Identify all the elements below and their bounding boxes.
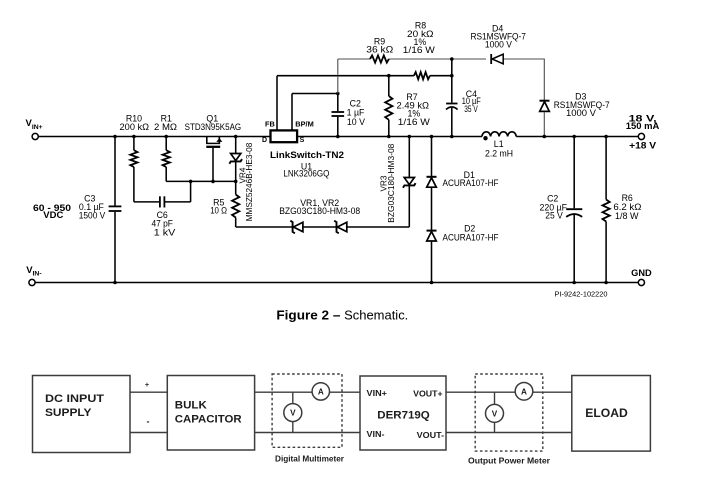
wire BP/M horizontal xyxy=(292,93,338,95)
wire bulk to der bottom xyxy=(255,432,360,434)
svg-text:VIN+: VIN+ xyxy=(26,118,43,131)
block ELOAD xyxy=(572,376,651,452)
svg-text:VIN+: VIN+ xyxy=(367,388,388,398)
IC U1 LinkSwitch-TN2 xyxy=(271,130,298,142)
svg-text:1000 V: 1000 V xyxy=(566,108,596,118)
svg-text:ELOAD: ELOAD xyxy=(585,408,628,420)
wire S-node rail segment xyxy=(297,136,482,138)
wire FB/R8 node vertical xyxy=(451,59,453,103)
diode D3 xyxy=(540,100,550,102)
svg-text:SUPPLY: SUPPLY xyxy=(45,407,92,419)
diode D2 xyxy=(427,230,437,232)
meter V (OPM) xyxy=(486,404,504,422)
block DC INPUT SUPPLY xyxy=(33,376,131,453)
svg-text:FB: FB xyxy=(265,120,275,129)
zener diode VR2 xyxy=(334,221,339,234)
svg-text:VIN-: VIN- xyxy=(367,429,385,439)
wire C6 to gate junction xyxy=(190,181,192,202)
svg-text:DER719Q: DER719Q xyxy=(377,409,430,421)
capacitor C6 xyxy=(134,201,159,203)
svg-text:ACURA107-HF: ACURA107-HF xyxy=(443,178,500,188)
svg-text:BZG03C180-HM3-08: BZG03C180-HM3-08 xyxy=(387,143,396,222)
inductor L1 xyxy=(482,132,516,137)
svg-text:BZG03C180-HM3-08: BZG03C180-HM3-08 xyxy=(279,206,360,216)
svg-text:Digital Multimeter: Digital Multimeter xyxy=(275,455,345,464)
svg-text:VOUT+: VOUT+ xyxy=(413,389,443,399)
node VIN- terminal xyxy=(29,279,35,285)
wire der to eload top xyxy=(446,391,572,393)
wire riser to BP junction (gray) xyxy=(337,59,339,75)
svg-text:MMSZ5246B-HE3-08: MMSZ5246B-HE3-08 xyxy=(245,142,254,221)
svg-text:200 kΩ: 200 kΩ xyxy=(120,122,150,132)
svg-text:1000 V: 1000 V xyxy=(485,40,512,50)
svg-text:BULK: BULK xyxy=(175,399,207,411)
svg-text:1/16 W: 1/16 W xyxy=(403,45,436,55)
wire output rail segment xyxy=(516,136,638,138)
svg-text:10 V: 10 V xyxy=(347,117,365,127)
wire dc+ xyxy=(130,391,167,393)
wire D3 to output rail (gray) xyxy=(543,112,545,136)
wire gate junction line xyxy=(166,180,236,182)
svg-text:V: V xyxy=(290,409,296,418)
svg-text:35 V: 35 V xyxy=(464,104,478,114)
wire FB horizontal line xyxy=(277,75,414,77)
svg-text:LNK3206GQ: LNK3206GQ xyxy=(283,168,329,178)
capacitor C3 xyxy=(114,137,116,206)
svg-text:D: D xyxy=(262,137,267,144)
svg-text:1/16 W: 1/16 W xyxy=(398,117,431,127)
resistor R9 xyxy=(370,55,389,62)
svg-text:DC INPUT: DC INPUT xyxy=(45,393,104,405)
svg-text:V: V xyxy=(492,410,498,419)
node GND terminal xyxy=(638,279,644,285)
capacitor C4 xyxy=(446,103,457,105)
wire R9 line (gray) xyxy=(338,58,370,60)
svg-text:1/8 W: 1/8 W xyxy=(615,211,639,221)
svg-text:LinkSwitch-TN2: LinkSwitch-TN2 xyxy=(270,150,344,160)
resistor R1 xyxy=(165,137,167,151)
svg-text:-: - xyxy=(147,417,150,427)
wire bottom rail xyxy=(35,282,638,284)
wire Q1 gate lead xyxy=(212,148,214,182)
zener diode VR1 xyxy=(290,221,295,234)
capacitor C2 (220uF output) xyxy=(573,137,575,209)
wire VR1-VR2 line xyxy=(236,226,293,228)
svg-text:+18 V: +18 V xyxy=(629,140,657,150)
diode D1 xyxy=(431,137,433,177)
resistor R6 xyxy=(605,137,607,200)
zener diode VR3 xyxy=(408,186,410,227)
svg-text:A: A xyxy=(521,387,527,396)
svg-text:VOUT-: VOUT- xyxy=(417,430,445,440)
svg-text:150 mA: 150 mA xyxy=(626,121,660,131)
wire bulk to der top xyxy=(255,391,360,393)
meter V (DM) xyxy=(284,404,302,422)
transistor Q1 xyxy=(206,137,208,145)
L1 phasing dot xyxy=(483,136,487,140)
dashed box Output Power Meter xyxy=(475,374,543,451)
wire voltmeter stem DM xyxy=(292,392,294,432)
svg-text:S: S xyxy=(300,137,305,144)
meter A (DM) xyxy=(312,383,329,400)
svg-text:BP/M: BP/M xyxy=(295,120,313,129)
svg-text:1 kV: 1 kV xyxy=(154,227,176,237)
svg-text:VDC: VDC xyxy=(43,210,64,220)
diode D4 xyxy=(490,54,492,64)
svg-text:+: + xyxy=(145,380,149,389)
svg-text:Figure 2 –Schematic.: Figure 2 –Schematic. xyxy=(276,308,408,323)
resistor R10 xyxy=(133,137,135,151)
resistor R5 xyxy=(232,195,239,218)
dashed box Digital Multimeter xyxy=(272,374,342,447)
svg-text:1500 V: 1500 V xyxy=(79,210,106,220)
svg-text:STD3N95K5AG: STD3N95K5AG xyxy=(185,122,242,132)
svg-text:2 MΩ: 2 MΩ xyxy=(154,122,177,132)
resistor R8 xyxy=(414,72,430,79)
wire FB pin riser xyxy=(276,76,278,131)
wire BP/M pin riser xyxy=(291,94,293,131)
svg-text:GND: GND xyxy=(631,268,652,278)
node 18V output terminal xyxy=(638,133,644,139)
svg-text:Output Power Meter: Output Power Meter xyxy=(468,456,551,465)
svg-text:CAPACITOR: CAPACITOR xyxy=(175,413,242,425)
svg-text:1 µF: 1 µF xyxy=(347,107,365,117)
svg-text:10 Ω: 10 Ω xyxy=(210,206,227,216)
svg-text:PI-9242-102220: PI-9242-102220 xyxy=(555,289,608,298)
capacitor C2 (1uF BP) xyxy=(337,94,339,112)
wire top rail input segment xyxy=(38,136,270,138)
svg-text:36 kΩ: 36 kΩ xyxy=(366,45,393,55)
wire der to eload bottom xyxy=(446,432,572,434)
svg-text:ACURA107-HF: ACURA107-HF xyxy=(443,232,500,242)
wire voltmeter stem OPM xyxy=(494,392,496,432)
node VIN+ terminal xyxy=(32,133,38,139)
meter A (OPM) xyxy=(515,383,533,401)
svg-text:A: A xyxy=(318,388,324,397)
block BULK CAPACITOR xyxy=(167,376,254,451)
svg-text:25 V: 25 V xyxy=(545,210,563,220)
zener diode VR4 xyxy=(235,137,237,154)
svg-text:2.2 mH: 2.2 mH xyxy=(485,149,513,159)
block DER719Q xyxy=(360,376,446,450)
resistor R7 xyxy=(388,76,390,96)
wire dc- xyxy=(130,432,167,434)
wire D4 to D3 (gray) xyxy=(543,59,545,101)
svg-text:VIN-: VIN- xyxy=(26,265,41,278)
